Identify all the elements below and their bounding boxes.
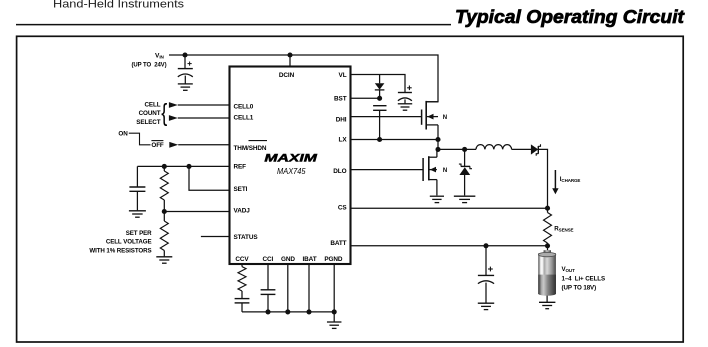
wire L1 to D3 (512, 148, 532, 150)
wire BATT (351, 245, 548, 247)
overline SHDN (249, 140, 268, 142)
label MAX745 (277, 166, 306, 176)
label WITH 1% RESISTORS (89, 247, 151, 254)
arrow into CELL1 (169, 115, 178, 121)
wire RSENSE top (547, 208, 549, 212)
svg-text:CCV: CCV (235, 256, 249, 263)
wire GND lead (287, 264, 289, 312)
node GND rail (285, 309, 290, 314)
ground R2 (156, 257, 172, 263)
node PGND rail (332, 309, 337, 314)
wire RSENSE bottom (547, 243, 549, 246)
wire DHI (351, 116, 422, 118)
svg-text:WITH 1% RESISTORS: WITH 1% RESISTORS (89, 247, 151, 254)
label CELL (144, 102, 160, 109)
svg-text:ON: ON (118, 130, 128, 137)
wire C1 to ground (184, 76, 186, 84)
pin label VL (339, 72, 347, 79)
svg-text:COUNT: COUNT (139, 110, 161, 117)
node LX switch (435, 147, 440, 152)
pin label BATT (330, 240, 346, 247)
capacitor C1 input lead (184, 55, 186, 69)
ground D2 (454, 196, 476, 202)
pin label LX (339, 137, 348, 144)
svg-text:RSENSE: RSENSE (554, 225, 573, 232)
node VADJ junction (162, 209, 167, 214)
pin label GND (281, 256, 295, 263)
wire C6 to rail (241, 303, 243, 312)
wire CELL1 (178, 117, 230, 119)
capacitor C5 ref lead (136, 166, 138, 187)
wire R1 bottom (163, 200, 165, 212)
wire ground rail (242, 311, 334, 313)
wire SETI (189, 166, 230, 190)
svg-text:IBAT: IBAT (302, 256, 316, 263)
wire VIN rail (169, 55, 438, 102)
node BATT cap (483, 243, 488, 248)
node DCIN junction (287, 52, 292, 57)
pin label SETI (234, 186, 248, 193)
battery B1 lead top (547, 246, 549, 251)
capacitor C4 plus (488, 267, 493, 272)
ground battery (539, 302, 555, 308)
svg-text:SET PER: SET PER (126, 230, 152, 237)
overline OFF (151, 140, 163, 142)
wire CS (351, 207, 548, 209)
wire CCV lead (241, 264, 243, 267)
svg-text:CS: CS (338, 204, 348, 211)
resistor RSENSE (544, 213, 552, 244)
ground VL cap (398, 104, 412, 110)
node REF-SETI (186, 164, 191, 169)
label SET PER (126, 230, 152, 237)
battery B1 Li+ cells (538, 250, 556, 296)
svg-text:CCI: CCI (263, 256, 274, 263)
svg-text:THM/SHDN: THM/SHDN (234, 145, 267, 152)
svg-text:OFF: OFF (151, 142, 164, 149)
transistor Q1 N-FET high-side (422, 101, 438, 140)
wire C7 to rail (267, 294, 269, 312)
svg-text:PGND: PGND (324, 256, 343, 263)
pin label CCV (235, 256, 249, 263)
wire C5 to ground (136, 191, 138, 210)
label UP TO 18V (562, 285, 597, 292)
pin label CELL1 (234, 115, 254, 122)
wire VADJ (164, 211, 229, 213)
inductor L1 (476, 145, 512, 150)
label N Q2 (443, 168, 447, 174)
wire ON to OFF (129, 133, 151, 145)
resistor R1 upper (160, 171, 168, 200)
capacitor C1 (178, 69, 193, 77)
pin label DCIN (279, 72, 295, 79)
battery B1 lead bottom (546, 296, 548, 302)
transistor Q2 N-FET low-side (423, 149, 437, 195)
pin label PGND (324, 256, 343, 263)
wire STATUS stub (201, 236, 230, 238)
wire REF (137, 165, 229, 167)
label COUNT (139, 110, 161, 117)
pin label REF (234, 164, 247, 171)
node LX fet (435, 137, 440, 142)
wire LX (351, 139, 439, 141)
arrow ICHARGE (552, 170, 558, 194)
svg-text:BATT: BATT (330, 240, 346, 247)
label 1-4 Li+ CELLS (562, 276, 605, 283)
diode D1 anode lead (379, 75, 381, 84)
capacitor C3 VL (398, 93, 412, 101)
node D2 junction (462, 147, 467, 152)
capacitor C6 CCV (235, 299, 250, 303)
wire R2 top (163, 212, 165, 222)
label CELL VOLTAGE (106, 239, 152, 246)
svg-text:GND: GND (281, 256, 295, 263)
pin label DHI (336, 117, 347, 124)
wire CCI lead (267, 264, 269, 290)
pin label CS (338, 204, 348, 211)
label VOUT (562, 266, 576, 273)
wire VL (351, 75, 406, 93)
ground output cap (478, 303, 494, 309)
wire CELL0 (178, 104, 230, 106)
diode D2 freewheel (459, 164, 472, 175)
svg-text:(UP TO 18V): (UP TO 18V) (562, 285, 597, 292)
wire LX down (437, 140, 439, 150)
label OFF (151, 142, 164, 149)
label SELECT (136, 119, 160, 126)
svg-text:VOUT: VOUT (562, 266, 576, 273)
node LX bst-cap (377, 137, 382, 142)
label N Q1 (443, 115, 447, 121)
pin label DLO (333, 168, 346, 175)
node CS junction (545, 206, 550, 211)
capacitor C3 VL plus (407, 86, 412, 91)
label VIN (155, 52, 164, 59)
wire DLO (351, 169, 424, 171)
ground Q2 (430, 196, 444, 202)
wire DCIN lead (289, 55, 291, 67)
capacitor C1 plus (188, 62, 192, 66)
header rule (16, 24, 451, 26)
wire THM/SHDN (178, 144, 229, 146)
wire switch node (438, 148, 476, 150)
svg-text:{: { (161, 99, 167, 127)
ground ref cap (129, 211, 146, 217)
pin label IBAT (302, 256, 316, 263)
arrow into CELL0 (169, 102, 178, 108)
svg-text:CELL1: CELL1 (234, 115, 254, 122)
node BATT battery (545, 243, 550, 248)
svg-text:Typical Operating Circuit: Typical Operating Circuit (455, 6, 685, 27)
node CCI rail (265, 309, 270, 314)
svg-text:SETI: SETI (234, 186, 248, 193)
node VIN junction (182, 52, 187, 57)
svg-text:BST: BST (334, 95, 347, 102)
svg-text:VIN: VIN (155, 52, 164, 59)
resistor R2 lower (160, 221, 168, 251)
capacitor C7 CCI (261, 290, 276, 295)
node BST junction (377, 96, 382, 101)
svg-text:1–4 Li+ CELLS: 1–4 Li+ CELLS (562, 276, 605, 283)
label ICHARGE (560, 176, 581, 183)
diode D1 (375, 83, 385, 90)
svg-text:CELL0: CELL0 (234, 103, 254, 110)
svg-text:REF: REF (234, 164, 247, 171)
wire D3 to sense (538, 149, 547, 208)
wire BST cap to LX (379, 110, 381, 139)
svg-text:DCIN: DCIN (279, 72, 295, 79)
diode D2 freewheel lead (464, 149, 466, 166)
arrow into THM/SHDN (169, 142, 178, 148)
header text Hand-Held Instruments (53, 0, 184, 11)
label ON (118, 130, 128, 137)
wire D1 to BST (379, 90, 381, 98)
svg-text:CELL: CELL (144, 102, 160, 109)
svg-text:VL: VL (339, 72, 347, 79)
pin label STATUS (234, 234, 259, 241)
capacitor C4 output (478, 275, 494, 283)
IC U1 MAX745 body (230, 67, 351, 265)
svg-text:N: N (443, 115, 447, 121)
pin label THM/SHDN (234, 145, 267, 152)
brace cell count (161, 99, 167, 127)
pin label VADJ (234, 207, 251, 214)
wire BST (351, 97, 380, 99)
wire IBAT lead (308, 264, 310, 312)
capacitor C5 ref (129, 187, 145, 191)
ground PGND (327, 322, 342, 328)
svg-text:DLO: DLO (333, 168, 346, 175)
wire R2 bottom (163, 251, 165, 257)
node REF-R1 (162, 164, 167, 169)
svg-text:MAXIM: MAXIM (264, 153, 318, 165)
pin label CCI (263, 256, 274, 263)
svg-text:Hand-Held Instruments: Hand-Held Instruments (53, 0, 184, 11)
node IBAT rail (306, 309, 311, 314)
wire C3 to ground (404, 99, 406, 103)
svg-text:N: N (443, 168, 447, 174)
diode D3 output schottky (531, 144, 541, 155)
capacitor C2 bootstrap (373, 106, 386, 111)
pin label BST (334, 95, 347, 102)
wire PGND lead (333, 264, 335, 322)
svg-text:STATUS: STATUS (234, 234, 259, 241)
label (UP TO 24V) (131, 62, 166, 68)
resistor R3 CCV (238, 267, 246, 291)
capacitor C4 output lead (485, 246, 487, 276)
wire R1 top (163, 166, 165, 171)
label RSENSE (554, 225, 573, 232)
logo MAXIM (264, 153, 318, 165)
svg-text:VADJ: VADJ (234, 207, 251, 214)
pin label CELL0 (234, 103, 254, 110)
svg-text:DHI: DHI (336, 117, 347, 124)
svg-text:ICHARGE: ICHARGE (560, 176, 581, 183)
wire D2 to ground (464, 175, 466, 195)
svg-text:(UP TO 24V): (UP TO 24V) (131, 62, 166, 68)
svg-text:MAX745: MAX745 (277, 166, 306, 176)
svg-text:SELECT: SELECT (136, 119, 160, 126)
wire C4 to ground (485, 283, 487, 303)
ground input cap (178, 84, 193, 90)
svg-text:LX: LX (339, 137, 348, 144)
wire R3 to C6 (241, 291, 243, 299)
title Typical Operating Circuit (455, 6, 685, 27)
svg-text:CELL VOLTAGE: CELL VOLTAGE (106, 239, 152, 246)
